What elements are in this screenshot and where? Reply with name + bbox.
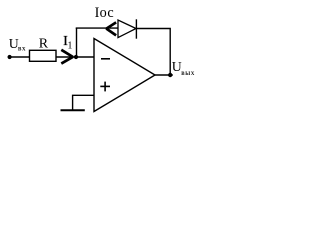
op-amp minus sign (101, 58, 110, 60)
current arrow I1 (61, 50, 73, 64)
node junction dot at inverting input (74, 55, 78, 59)
svg-text:R: R (39, 36, 49, 51)
svg-text:ВЫХ: ВЫХ (181, 72, 195, 77)
wire resistor to op-amp inverting input (56, 56, 94, 58)
ground (61, 109, 85, 111)
wire feedback tap vertical (76, 28, 78, 57)
wire non-inverting input (73, 95, 94, 110)
op-amp U1 (94, 39, 155, 112)
node output junction dot (168, 73, 172, 77)
svg-text:ВХ: ВХ (18, 47, 26, 53)
wire input to resistor (10, 56, 30, 58)
diode VD (118, 20, 136, 38)
node input terminal dot (8, 55, 12, 59)
svg-text:U: U (172, 59, 182, 74)
wire output (155, 74, 173, 76)
wire feedback rail left (76, 27, 118, 29)
wire feedback rail right (136, 29, 170, 76)
resistor R (30, 50, 57, 61)
diode cathode bar (135, 19, 137, 38)
op-amp plus sign (100, 85, 110, 87)
svg-text:1: 1 (67, 40, 72, 51)
svg-text:Iос: Iос (95, 5, 114, 21)
current arrow Ioc (106, 22, 116, 35)
